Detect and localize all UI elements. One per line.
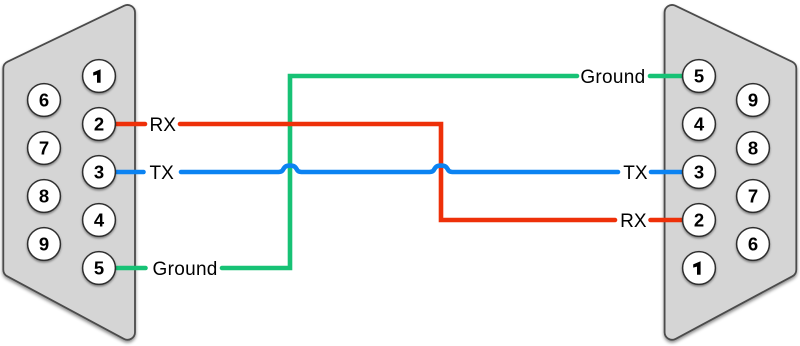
svg-text:5: 5 (694, 66, 704, 87)
svg-text:5: 5 (94, 258, 104, 279)
wire: green ground run, left label to right label (222, 76, 577, 268)
svg-text:Ground: Ground (580, 67, 645, 88)
svg-text:3: 3 (94, 162, 104, 183)
svg-text:RX: RX (150, 115, 177, 136)
right pin 1 (683, 252, 716, 285)
wire: red RX run with crossover (180, 124, 615, 220)
right pin 4 (683, 108, 716, 141)
right pin 9 (737, 84, 770, 117)
right pin 8 (737, 132, 770, 165)
svg-text:TX: TX (150, 163, 175, 184)
wire: blue TX, right pin3 stub (651, 170, 686, 175)
svg-text:2: 2 (94, 114, 104, 135)
wire: red RX, left pin2 stub (112, 122, 145, 127)
right pin 3 (683, 156, 716, 189)
left pin 6 (28, 84, 61, 117)
svg-text:4: 4 (94, 210, 105, 231)
wire: green ground, left pin5 stub (112, 266, 146, 271)
left DB9 connector body (3, 5, 135, 340)
right pin 5 (683, 60, 716, 93)
right pin 7 (737, 180, 770, 213)
svg-text:7: 7 (748, 186, 758, 207)
svg-text:Ground: Ground (153, 259, 218, 280)
right DB9 connector body (665, 5, 797, 340)
svg-text:6: 6 (39, 90, 49, 111)
svg-text:9: 9 (748, 90, 758, 111)
left pin 3 (83, 156, 116, 189)
left pin 5 (83, 252, 116, 285)
wire: blue TX run with hops over green and red (181, 166, 618, 172)
svg-text:8: 8 (748, 138, 758, 159)
svg-text:RX: RX (620, 211, 647, 232)
wire: green ground, right pin5 stub (650, 74, 686, 79)
left pin 2 (83, 108, 116, 141)
right pin 6 (737, 228, 770, 261)
left pin 9 (28, 228, 61, 261)
svg-text:TX: TX (623, 163, 648, 184)
wire: blue TX, left pin3 stub (112, 170, 144, 175)
wire: red RX, right pin2 stub (651, 218, 687, 223)
svg-text:3: 3 (694, 162, 704, 183)
left pin 4 (83, 204, 116, 237)
svg-text:7: 7 (39, 138, 49, 159)
svg-text:8: 8 (39, 186, 49, 207)
svg-text:2: 2 (694, 210, 704, 231)
svg-text:9: 9 (39, 234, 49, 255)
svg-text:4: 4 (694, 114, 705, 135)
left pin 1 (83, 60, 116, 93)
left pin 8 (28, 180, 61, 213)
left pin 7 (28, 132, 61, 165)
right pin 2 (683, 204, 716, 237)
svg-text:6: 6 (748, 234, 758, 255)
